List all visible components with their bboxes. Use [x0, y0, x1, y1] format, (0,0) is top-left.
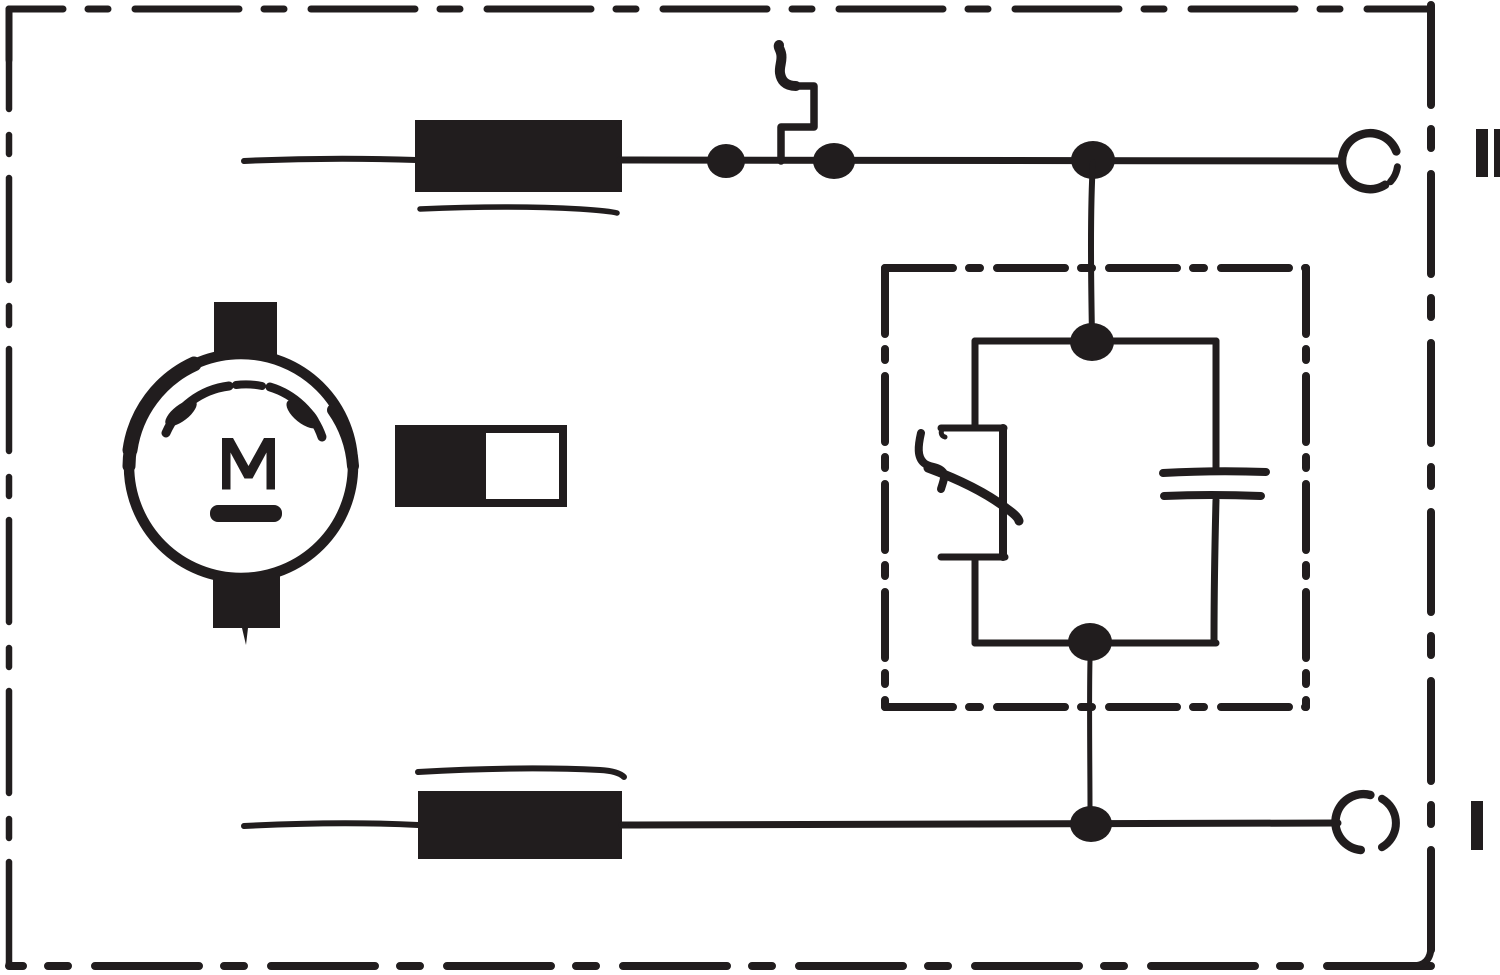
junction: node at bottom branch: [1070, 806, 1112, 842]
label M: [222, 438, 275, 490]
wire: branch from suppressor box to bottom lead: [1087, 660, 1092, 810]
terminal II (open circle): [1342, 133, 1396, 189]
capacitor plate (bottom): [1164, 495, 1261, 496]
motor M armature (circle): [129, 354, 353, 578]
junction dot (loop bottom): [1068, 623, 1112, 661]
junction dot (top lead, left): [707, 144, 745, 178]
junction dot (loop top): [1070, 323, 1114, 361]
motor brush (right blob): [282, 394, 324, 433]
terminal I (open circle): [1335, 794, 1370, 850]
choke core line (bottom choke): [418, 768, 624, 777]
label II: [1476, 129, 1500, 177]
wire: top lead, left segment: [244, 159, 416, 161]
varistor (box with diagonal strike): [919, 428, 1019, 557]
motor brush (left blob): [161, 395, 201, 431]
wire: top lead, choke to terminal II: [620, 160, 1341, 161]
capacitor plate (top): [1163, 471, 1266, 473]
permanent magnet (half-filled block): [399, 429, 563, 503]
thermal switch contact: [781, 86, 814, 161]
suppression choke (top, filled block): [415, 120, 622, 192]
wire: branch from top lead down into suppressor box: [1091, 162, 1093, 336]
wire: bottom lead, left segment: [244, 823, 418, 826]
motor terminal block (top): [214, 302, 277, 355]
suppression choke (bottom, filled block): [418, 791, 622, 859]
junction: node joining branch to suppressor network: [1071, 141, 1115, 179]
motor commutator bar: [210, 505, 282, 522]
junction dot (top lead, right of switch): [813, 143, 855, 179]
wire: bottom lead, choke to terminal I: [622, 823, 1338, 825]
label I: [1471, 801, 1483, 850]
wire: suppressor loop left edge (lower): [972, 557, 979, 643]
suppressor network enclosure (inner dash-dot box): [885, 268, 1306, 707]
wire: suppressor loop top edge: [975, 338, 1216, 345]
motor brush arc: [166, 386, 229, 433]
choke core line (top choke): [420, 207, 617, 213]
wire: suppressor loop left edge (upper): [972, 341, 979, 426]
wire: suppressor loop right edge (lower): [1214, 500, 1216, 643]
wire: suppressor loop right edge (upper): [1213, 341, 1220, 470]
wire: suppressor loop bottom edge: [975, 640, 1216, 647]
motor terminal block (bottom): [213, 574, 280, 645]
